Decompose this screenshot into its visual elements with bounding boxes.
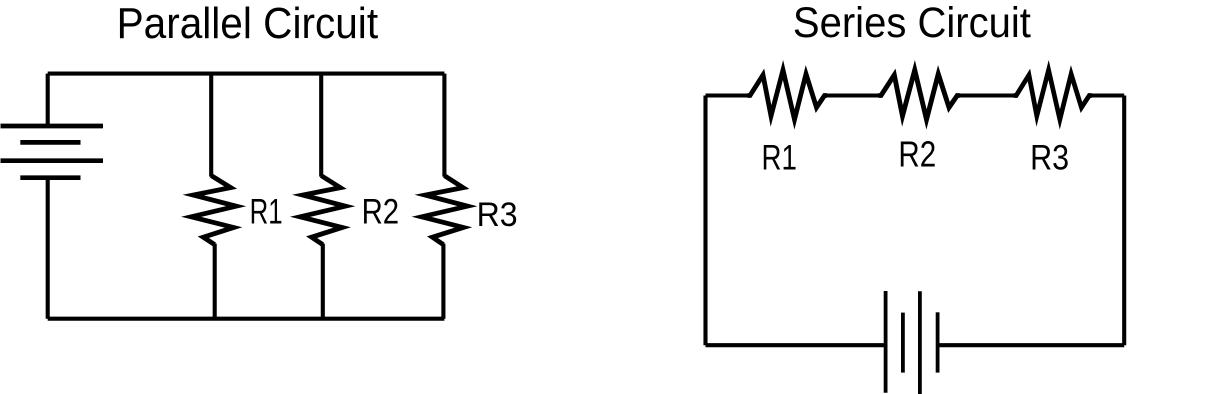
svg-text:R1: R1 [762, 137, 797, 177]
svg-text:R3: R3 [477, 196, 518, 234]
svg-text:R3: R3 [1030, 137, 1069, 177]
svg-text:Series Circuit: Series Circuit [793, 0, 1031, 47]
svg-text:R2: R2 [362, 192, 400, 232]
svg-text:Parallel Circuit: Parallel Circuit [117, 0, 379, 48]
svg-text:R1: R1 [250, 192, 283, 232]
svg-text:R2: R2 [898, 133, 936, 174]
